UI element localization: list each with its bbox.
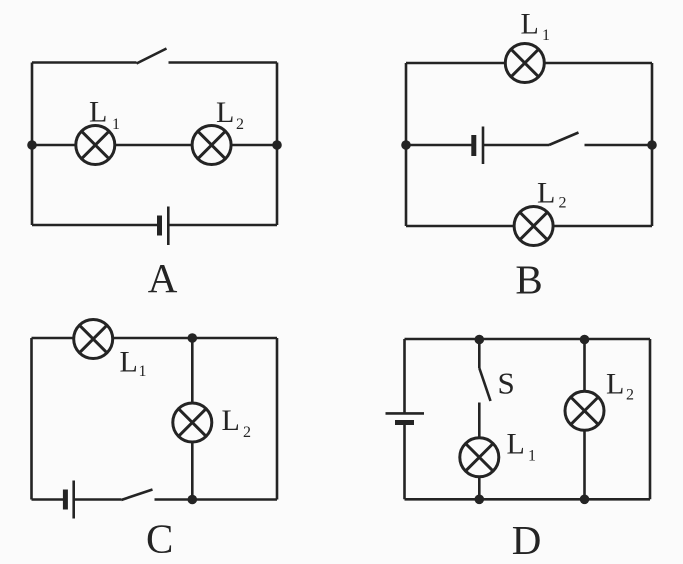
svg-text:L: L bbox=[222, 404, 240, 437]
svg-text:L: L bbox=[537, 177, 555, 210]
svg-text:L: L bbox=[606, 368, 624, 401]
svg-text:2: 2 bbox=[559, 195, 567, 212]
svg-text:L: L bbox=[507, 427, 525, 460]
svg-text:L: L bbox=[89, 96, 107, 129]
svg-text:2: 2 bbox=[236, 116, 244, 133]
svg-text:1: 1 bbox=[112, 116, 120, 133]
svg-text:1: 1 bbox=[139, 363, 147, 380]
svg-text:L: L bbox=[120, 346, 138, 379]
svg-text:C: C bbox=[146, 516, 173, 562]
svg-text:1: 1 bbox=[542, 27, 550, 44]
svg-text:2: 2 bbox=[243, 424, 251, 441]
svg-text:D: D bbox=[512, 517, 542, 563]
svg-text:1: 1 bbox=[528, 447, 536, 464]
svg-text:S: S bbox=[498, 366, 515, 401]
svg-text:2: 2 bbox=[626, 387, 634, 404]
svg-text:L: L bbox=[521, 8, 539, 41]
svg-text:L: L bbox=[216, 96, 234, 129]
svg-text:A: A bbox=[148, 255, 178, 301]
svg-text:B: B bbox=[515, 257, 542, 303]
